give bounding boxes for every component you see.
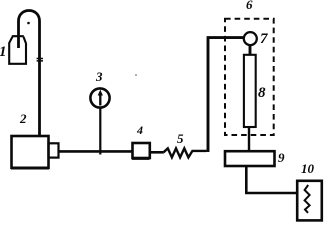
speck <box>135 74 137 76</box>
label 4 <box>137 124 143 136</box>
wire pipe B <box>150 151 164 154</box>
wire riser to furnace <box>207 38 245 152</box>
label 2 <box>20 112 27 125</box>
label 9 <box>278 151 285 164</box>
gauge 3 arrow <box>99 93 101 106</box>
circle 7 <box>244 32 257 45</box>
label 3 <box>96 70 103 83</box>
wire drop to recorder <box>246 166 297 193</box>
wire stem below circle 7 <box>249 45 252 55</box>
coil 5 zigzag <box>164 148 207 157</box>
square 4 thick bottom <box>132 158 150 160</box>
rect 9 (trap) <box>225 151 275 166</box>
box 2 (pump) <box>12 136 49 168</box>
column 8 <box>244 55 256 127</box>
stub on box 2 <box>49 143 59 157</box>
box 10 (recorder) <box>297 181 322 221</box>
wire pipe A <box>59 150 133 153</box>
label 8 <box>258 86 266 101</box>
wire U-tube from flask over to pump <box>19 11 40 136</box>
label 5 <box>177 132 184 145</box>
label 1 <box>0 45 7 60</box>
dashed box 6 (thermostat) <box>225 19 274 135</box>
square 4 <box>133 143 150 158</box>
label 6 <box>246 0 253 11</box>
box 2 thick bottom <box>11 167 49 170</box>
flask 1 <box>9 36 26 64</box>
coil inside box 10 <box>305 185 310 213</box>
gauge 3 circle <box>90 88 109 107</box>
label 10 <box>301 162 314 175</box>
wire stem below column 8 <box>248 127 250 151</box>
joint ticks on tube <box>37 59 43 61</box>
wire gauge drop <box>99 108 101 155</box>
dot inside arc <box>27 22 30 25</box>
label 7 <box>260 32 268 47</box>
